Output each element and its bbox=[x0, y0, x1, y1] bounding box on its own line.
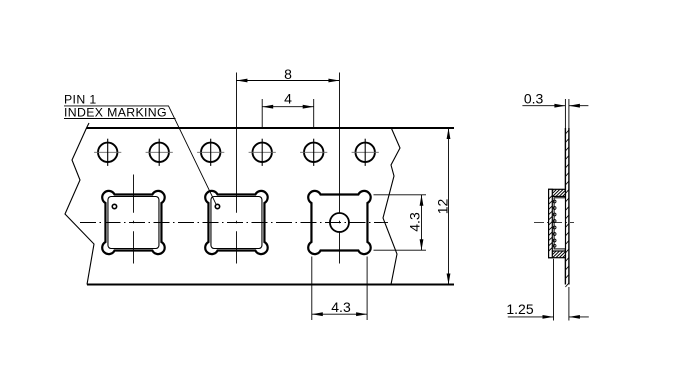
pocket P2 vertical centerline bbox=[235, 221, 237, 224]
svg-text:0.3: 0.3 bbox=[524, 90, 544, 106]
svg-text:4: 4 bbox=[284, 91, 292, 107]
section centerline bbox=[534, 222, 574, 224]
svg-text:4.3: 4.3 bbox=[331, 299, 351, 315]
section tape hatch bbox=[565, 130, 569, 287]
pocket P1 component outline bbox=[108, 197, 159, 249]
sprocket hole 3 bbox=[197, 139, 224, 166]
pocket P1 pin-1 dot bbox=[112, 204, 116, 208]
section pocket left wall bbox=[549, 189, 553, 257]
svg-text:INDEX MARKING: INDEX MARKING bbox=[64, 105, 167, 119]
section tape strip bbox=[565, 99, 569, 285]
tape left break line bbox=[65, 123, 94, 285]
tape top edge bbox=[87, 127, 455, 129]
svg-text:8: 8 bbox=[284, 66, 292, 82]
svg-text:12: 12 bbox=[435, 199, 451, 215]
pocket P2 outline bbox=[205, 191, 267, 254]
pocket P3 vertical centerline bbox=[338, 221, 340, 224]
section pocket bottom flange bbox=[549, 251, 566, 258]
dimension 4.3 pocket width bbox=[312, 257, 367, 321]
section component body bbox=[553, 198, 565, 249]
sprocket hole 6 bbox=[352, 139, 379, 166]
dimension 8 pocket pitch bbox=[236, 66, 339, 213]
dimension 4.3 pocket height bbox=[374, 195, 427, 250]
svg-text:1.25: 1.25 bbox=[506, 301, 533, 317]
pocket P2 pin-1 dot bbox=[215, 204, 219, 208]
pocket P3 center hole bbox=[330, 213, 349, 232]
pocket P1 outline bbox=[102, 191, 164, 254]
section pocket top flange bbox=[549, 189, 566, 196]
sprocket hole 5 bbox=[300, 139, 327, 166]
label PIN 1 INDEX MARKING bbox=[64, 93, 167, 120]
dimension 0.3 tape thickness bbox=[522, 90, 588, 107]
pocket P1 vertical centerline bbox=[132, 175, 134, 213]
pocket P2 component outline bbox=[211, 197, 262, 249]
dimension 1.25 pocket depth bbox=[506, 259, 588, 321]
dimension 12 tape width bbox=[435, 128, 451, 285]
pocket P3 outline bbox=[308, 191, 370, 254]
sprocket hole 2 bbox=[146, 139, 173, 166]
horizontal centerline of pockets bbox=[80, 222, 388, 224]
sprocket hole 4 bbox=[249, 139, 276, 166]
leader line to pin-1 dot bbox=[64, 106, 216, 205]
tape bottom edge bbox=[87, 284, 454, 286]
sprocket hole 1 bbox=[94, 139, 121, 166]
dimension 4 sprocket pitch bbox=[262, 91, 314, 129]
tape right break line bbox=[383, 129, 400, 285]
svg-text:4.3: 4.3 bbox=[407, 212, 423, 232]
